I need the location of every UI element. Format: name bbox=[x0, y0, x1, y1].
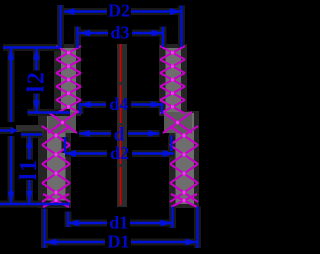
arrow D1 right bbox=[186, 239, 197, 246]
arrow l1 top bbox=[26, 136, 32, 148]
arrow D2 right bbox=[170, 8, 181, 15]
jpeg halo linework bbox=[0, 5, 198, 248]
svg-text:l2: l2 bbox=[24, 71, 50, 93]
thread hatch lower-right bbox=[170, 126, 198, 202]
arrow D2 left bbox=[64, 8, 75, 15]
step fill left bbox=[48, 112, 76, 133]
overall length dim line bbox=[10, 48, 12, 203]
thread hatch upper-left bbox=[56, 46, 81, 114]
l1 top extension line bbox=[21, 133, 42, 135]
d1 upper right extension line bbox=[170, 136, 172, 152]
arrow d2 left bbox=[65, 150, 76, 157]
arrow l2 bottom bbox=[33, 101, 39, 113]
D2 right extension line bbox=[180, 6, 182, 48]
d3 left extension line bbox=[76, 27, 78, 49]
l2 bottom extension line bbox=[28, 111, 71, 113]
arrow overall bottom bbox=[8, 192, 14, 204]
svg-text:D1: D1 bbox=[108, 232, 130, 252]
bottom extension line bbox=[0, 203, 70, 205]
svg-text:d3: d3 bbox=[110, 23, 129, 43]
arrow l2 top bbox=[33, 48, 39, 60]
jpeg halo lower-right wall bbox=[169, 111, 199, 208]
leader line bbox=[0, 129, 13, 131]
d4 dim line bbox=[80, 103, 162, 105]
jpeg halo upper-right wall bbox=[159, 44, 187, 116]
svg-text:d4: d4 bbox=[109, 94, 128, 114]
jpeg halo upper-left wall bbox=[54, 44, 81, 116]
wall fill lower-right bbox=[176, 113, 195, 204]
jpeg halo lower-left wall bbox=[38, 111, 71, 208]
arrow l1 bottom bbox=[26, 191, 32, 203]
arrow overall top bbox=[8, 48, 14, 60]
d3 dim line bbox=[79, 32, 163, 34]
d dim line bbox=[79, 132, 160, 134]
d2 dim line bbox=[65, 152, 174, 154]
svg-text:l1: l1 bbox=[16, 158, 42, 180]
thread runout X left bbox=[48, 112, 77, 133]
hatch crossing highlights bbox=[54, 51, 185, 202]
D2 left extension line bbox=[59, 5, 61, 48]
thread hatch bottom-right X bbox=[171, 194, 197, 207]
svg-text:d2: d2 bbox=[110, 143, 129, 163]
d1 dim line bbox=[68, 222, 172, 224]
arrow d2 right bbox=[163, 150, 174, 157]
centerline bbox=[120, 44, 122, 207]
arrow d1 left bbox=[68, 220, 79, 227]
svg-text:D2: D2 bbox=[108, 0, 130, 20]
D1 left extension line bbox=[43, 209, 45, 249]
wall fill lower-left bbox=[47, 113, 66, 204]
arrow leader right bbox=[11, 127, 18, 134]
top extension line bbox=[3, 46, 60, 48]
wall fill upper-left bbox=[61, 48, 76, 113]
d1 right extension line bbox=[171, 207, 173, 229]
d4 right extension stub bbox=[161, 103, 163, 114]
arrow d3 left bbox=[79, 30, 90, 37]
jpeg halo centerline column bbox=[117, 44, 127, 207]
jpeg halo leader band bbox=[16, 125, 44, 132]
l2 dim line bbox=[35, 48, 37, 112]
wall fill upper-right bbox=[166, 48, 182, 113]
thread runout X right bbox=[163, 112, 192, 133]
step fill right bbox=[164, 112, 192, 133]
arrow d4 right bbox=[151, 101, 162, 108]
arrow d3 right bbox=[152, 30, 163, 37]
arrow d right bbox=[149, 130, 160, 137]
d2 left extension line bbox=[64, 137, 66, 153]
arrow d left bbox=[79, 130, 90, 137]
thread hatch bottom-left X bbox=[43, 194, 69, 207]
arrow d1 right bbox=[161, 220, 172, 227]
thread hatch lower-left bbox=[42, 126, 70, 202]
d1 left extension line bbox=[67, 212, 69, 228]
thread hatch upper-right bbox=[160, 46, 185, 114]
arrow d4 left bbox=[80, 101, 91, 108]
d3 right extension line bbox=[162, 27, 164, 48]
l1 dim line bbox=[28, 137, 30, 204]
d4 left extension stub bbox=[79, 103, 81, 114]
D1 right extension line bbox=[196, 207, 198, 249]
svg-text:d1: d1 bbox=[109, 213, 128, 233]
arrow D1 left bbox=[46, 239, 57, 246]
D2 dim line bbox=[64, 10, 182, 12]
D1 dim line bbox=[46, 241, 197, 243]
